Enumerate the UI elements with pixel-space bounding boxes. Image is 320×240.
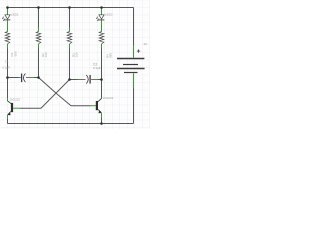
wire cross B node R3/C2 to Q1 base (20, 80, 70, 109)
wire column4 LED2 top green pin (101, 8, 103, 15)
wire battery bottom drop (133, 88, 135, 124)
label C2 value (93, 62, 101, 70)
wire R3 top green pin (69, 28, 71, 32)
wire bottom ground rail (8, 123, 134, 125)
label R4 value (105, 53, 112, 58)
wire column2 rail to R2 (38, 8, 40, 28)
wire Q2 base green pin (91, 105, 96, 107)
wire column1 LED1 to R1 (green pins) (7, 20, 9, 31)
svg-text:LED2: LED2 (105, 12, 113, 16)
wire Q1 base green pin (13, 107, 20, 109)
battery plus sign (137, 49, 140, 52)
resistor R3 (67, 32, 72, 44)
resistor R4 (99, 32, 104, 44)
resistor R2 (36, 32, 41, 44)
wire top rail V+ (8, 7, 134, 9)
wire C2 left lead from node R3 (70, 79, 78, 81)
svg-text:10k: 10k (44, 52, 48, 57)
junction dots (6, 6, 103, 125)
wire R4 bottom green pin (101, 44, 103, 49)
wire Q1 emitter green pin (7, 115, 9, 119)
node top col1 (6, 6, 9, 9)
transistor Q2 2N2222 (97, 98, 102, 113)
svg-text:10k: 10k (75, 52, 79, 57)
wire column1 node down to Q1 collector (7, 78, 9, 99)
svg-text:0.1µF: 0.1µF (2, 66, 10, 70)
node col2 C1/R2 (37, 76, 40, 79)
wire Q2 emitter to ground rail (101, 118, 103, 124)
node col3 C2/R3 (68, 78, 71, 81)
svg-text:2N2222: 2N2222 (10, 98, 21, 102)
node top col4 (100, 6, 103, 9)
wire column3 rail to R3 (69, 8, 71, 28)
node top col2 (37, 6, 40, 9)
node col1 C1 (6, 76, 9, 79)
wire R2 bottom to node C1 (38, 49, 40, 78)
capacitor C1 (22, 74, 26, 83)
svg-text:C1: C1 (5, 60, 9, 64)
LED LED2 (96, 15, 104, 21)
wire Q2 collector green pin (101, 98, 103, 99)
wire C1 left green pin (19, 77, 21, 79)
svg-text:0.1µF: 0.1µF (93, 66, 101, 70)
wire node C2 right down to Q2 collector (101, 80, 103, 98)
wire C1 right to node R2 (34, 77, 39, 79)
node col4 C2/R4 (100, 78, 103, 81)
wire column4 LED2 to R4 green pins (101, 20, 103, 31)
wire R3 bottom green pin (69, 44, 71, 49)
svg-text:680: 680 (13, 51, 17, 56)
wire C2 right to node R4 (99, 79, 102, 81)
battery BAT1 (117, 45, 145, 88)
svg-text:LED1: LED1 (11, 12, 19, 16)
capacitor C2 (86, 75, 90, 84)
resistor R1 (5, 32, 10, 44)
wire C2 left green pin (78, 79, 86, 81)
label R3 value (71, 52, 78, 57)
transistor Q1 2N2222 (8, 101, 13, 115)
wire C1 right green pin (26, 77, 34, 79)
wire column1 R1 bottom green pin (7, 44, 9, 49)
node top col3 (68, 6, 71, 9)
wire Q2 emitter green pin (101, 113, 103, 118)
svg-text:9V: 9V (144, 42, 148, 46)
svg-text:2N2222: 2N2222 (103, 96, 114, 100)
LED LED1 (2, 15, 10, 21)
wire R2 bottom green pin (38, 44, 40, 49)
wire column1 LED1 top lead (green pin) (7, 8, 9, 15)
label R1 value (10, 51, 17, 56)
wire C1 left lead from node (8, 77, 19, 79)
wire R3 bottom to node C2 (69, 49, 71, 80)
wire battery top drop (133, 8, 135, 46)
label C1 value (2, 60, 10, 70)
wire Q1 collector green pin (7, 98, 9, 101)
wire Q1 emitter to ground rail (7, 119, 9, 124)
label R2 value (41, 52, 48, 57)
node ground Q2 (100, 122, 103, 125)
svg-text:680: 680 (109, 53, 113, 58)
wire cross A node R2/C1 to Q2 base (39, 78, 91, 106)
wire C2 right green pin (91, 79, 98, 81)
wire R4 bottom to node C2 right (101, 49, 103, 80)
wire column1 R1 to node at C1 (7, 49, 9, 78)
wire R2 top green pin (38, 28, 40, 32)
